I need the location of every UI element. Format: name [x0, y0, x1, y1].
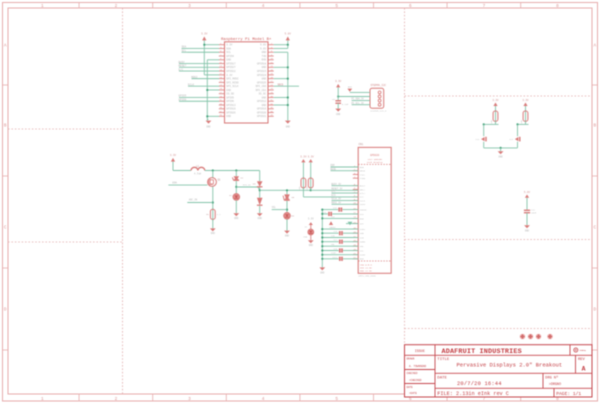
svg-text:3: 3 — [188, 397, 191, 402]
wire L1 to node VSW — [205, 170, 260, 172]
svg-text:GND: GND — [226, 115, 231, 118]
svg-text:3.3V: 3.3V — [201, 33, 208, 36]
svg-text:D7: D7 — [305, 226, 308, 229]
wire MOSI to CN1 — [332, 203, 359, 205]
svg-text:GND: GND — [499, 156, 504, 159]
power symbol 3.3V boost — [171, 158, 175, 162]
svg-text:VDHR: VDHR — [360, 241, 366, 244]
svg-text:B: B — [4, 124, 7, 129]
title block PAGE cell divider — [553, 388, 555, 397]
svg-text:SPI_CE0: SPI_CE0 — [255, 85, 266, 88]
svg-text:ID_SC: ID_SC — [259, 93, 267, 96]
CN1 pin stubs numbers and names — [353, 164, 367, 260]
svg-text:GND: GND — [525, 229, 530, 232]
svg-text:GPIO26: GPIO26 — [226, 111, 236, 114]
wire cap row 5 — [343, 232, 358, 234]
svg-text:GPIO25: GPIO25 — [257, 81, 267, 84]
svg-text:GPIO6: GPIO6 — [226, 100, 234, 103]
svg-text:DRG Nº: DRG Nº — [545, 376, 558, 381]
svg-text:SPI_CE1: SPI_CE1 — [255, 89, 266, 92]
diode D4 — [257, 198, 263, 205]
wire D5 to VGL node — [286, 201, 288, 213]
svg-text:ADC_IN: ADC_IN — [189, 199, 198, 202]
wire resistor to jumper node — [525, 121, 527, 124]
title block left column divider — [434, 345, 436, 397]
svg-text:DATE: DATE — [437, 377, 447, 381]
wire C6 to ground — [337, 103, 339, 108]
svg-text:GDR: GDR — [360, 166, 365, 169]
svg-text:TSCL: TSCL — [360, 173, 366, 176]
junction pin1 3.3V — [203, 44, 205, 46]
svg-text:GPIO27: GPIO27 — [226, 66, 236, 69]
svg-text:GND: GND — [262, 66, 267, 69]
power symbol 5.0V C12 — [525, 195, 529, 198]
svg-text:ADAFRUIT INDUSTRIES: ADAFRUIT INDUSTRIES — [442, 348, 522, 356]
svg-text:7: 7 — [483, 397, 486, 402]
svg-text:SPI_SCLK: SPI_SCLK — [226, 85, 239, 88]
wire D/C to CN1 — [332, 192, 359, 194]
svg-text:C6: C6 — [332, 98, 335, 101]
svg-text:GND: GND — [258, 217, 263, 220]
junction rail row 7 — [321, 241, 323, 243]
resistor R3 — [310, 177, 312, 190]
wire R3 to RES row — [310, 188, 312, 191]
wire jumper common — [484, 147, 518, 149]
power symbol 3.3V LED7 — [309, 222, 313, 225]
capacitor row 7 — [339, 240, 341, 244]
svg-text:R1: R1 — [206, 213, 209, 216]
junction jumper common — [500, 147, 502, 149]
svg-text:10uF: 10uF — [531, 212, 537, 215]
junction rail row 5 — [321, 232, 323, 234]
svg-text:GPIO12: GPIO12 — [257, 100, 267, 103]
svg-text:VSH2: VSH2 — [360, 228, 366, 231]
svg-text:>DATE: >DATE — [409, 391, 417, 395]
resistor R1 — [212, 208, 214, 221]
capacitor row 5 — [339, 231, 341, 235]
wire plain row 6 — [322, 237, 358, 239]
junction at RES row — [286, 189, 288, 191]
svg-text:RESET: RESET — [179, 65, 187, 68]
LED D6 — [284, 213, 291, 220]
connector JP1 STEMMA I2C box — [370, 88, 384, 108]
svg-text:5.0V: 5.0V — [260, 47, 267, 50]
junction GND rail pin25 — [206, 89, 208, 91]
svg-text:>CHECKED: >CHECKED — [409, 378, 422, 382]
wire 5V to C12 — [526, 198, 528, 210]
wire D4 to ground — [259, 206, 261, 213]
junction D1 cathode — [235, 186, 237, 188]
junction at C6 node — [337, 95, 339, 97]
svg-text:GND: GND — [309, 244, 314, 247]
wire JP1 pin1 GND — [350, 91, 370, 93]
svg-text:RES#: RES# — [360, 188, 366, 191]
wire GPIO5 — [179, 96, 219, 98]
svg-text:6: 6 — [409, 397, 412, 402]
svg-text:VSH2: VSH2 — [331, 226, 337, 229]
svg-text:GPIO13: GPIO13 — [226, 104, 236, 107]
svg-text:2.2: 2.2 — [217, 213, 222, 216]
svg-text:5: 5 — [335, 4, 338, 9]
svg-text:SRCS: SRCS — [278, 83, 284, 86]
capacitor C6 — [335, 100, 341, 102]
title block left row lines — [405, 369, 436, 371]
ground symbol below C6 — [335, 109, 341, 112]
svg-text:1: 1 — [41, 4, 44, 9]
capacitor C12 — [524, 209, 530, 211]
transistor Q1 n-mosfet — [208, 178, 217, 187]
junction rail row 6 — [321, 236, 323, 238]
LED D7 — [308, 229, 314, 235]
wire SCLK to CN1 — [332, 200, 359, 202]
svg-text:GPIO17: GPIO17 — [226, 62, 236, 65]
wire branch VGL down — [286, 190, 288, 194]
ground symbol below J1 right — [285, 121, 291, 124]
svg-text:GND: GND — [360, 217, 365, 220]
svg-text:BUSY: BUSY — [360, 185, 366, 188]
svg-text:D6: D6 — [291, 215, 294, 218]
svg-text:3.3V: 3.3V — [170, 154, 177, 157]
power arrow VPP — [329, 221, 333, 225]
svg-text:MOSI: MOSI — [191, 76, 198, 79]
svg-text:VSL: VSL — [360, 249, 365, 252]
wire plain row 8 — [322, 245, 358, 247]
svg-text:8: 8 — [556, 397, 559, 402]
svg-text:>HEHA: >HEHA — [579, 349, 586, 352]
junctions GND rail right — [287, 66, 289, 68]
svg-text:5.0V: 5.0V — [260, 44, 267, 47]
connector CN1 EPD box — [358, 147, 391, 273]
svg-text:CS#: CS# — [360, 196, 365, 199]
svg-text:D: D — [593, 308, 596, 313]
ground symbol below R1 — [210, 228, 216, 231]
svg-text:VGL: VGL — [272, 206, 277, 209]
svg-text:GND: GND — [336, 113, 341, 116]
svg-text:TITLE: TITLE — [437, 358, 450, 362]
svg-text:GPIO6: GPIO6 — [179, 98, 187, 101]
svg-text:10K: 10K — [520, 119, 523, 123]
diode D1 zener — [235, 171, 237, 177]
wire BUSY to CN1 — [332, 185, 359, 187]
svg-text:GND: GND — [262, 78, 267, 81]
svg-text:GPIO22: GPIO22 — [226, 70, 236, 73]
svg-text:5: 5 — [335, 397, 338, 402]
svg-text:CHECKED: CHECKED — [407, 372, 418, 375]
svg-text:4.7uH: 4.7uH — [194, 173, 202, 176]
svg-text:TXD: TXD — [262, 55, 267, 58]
svg-text:>DRGNO: >DRGNO — [549, 382, 561, 387]
svg-text:GPIO20: GPIO20 — [257, 111, 267, 114]
svg-text:8: 8 — [556, 4, 559, 9]
svg-text:GPIO24: GPIO24 — [257, 74, 267, 77]
svg-text:Pervasive Displays 2.0" Breako: Pervasive Displays 2.0" Breakout — [457, 362, 563, 369]
svg-text:GPIO19: GPIO19 — [226, 108, 236, 111]
IC J1 Raspberry Pi Model B+ box — [225, 42, 269, 123]
ground symbol below LED1 — [233, 213, 239, 216]
junction rail row 10 — [321, 254, 323, 256]
svg-text:FILE: 2.13in eInk rev C: FILE: 2.13in eInk rev C — [437, 391, 509, 397]
svg-text:D5: D5 — [292, 196, 295, 199]
svg-text:3.3V: 3.3V — [308, 217, 314, 220]
resistor R2 — [302, 177, 304, 190]
frame section dashed divider horizontal right middle — [405, 239, 593, 241]
solder jumper SJ1 — [481, 137, 485, 141]
wire SDA — [188, 47, 220, 49]
svg-text:A: A — [4, 44, 7, 49]
wire D/C — [179, 70, 219, 72]
svg-text:D/C: D/C — [179, 67, 184, 71]
svg-text:D3: D3 — [253, 182, 256, 185]
svg-text:A. TOWNSEND: A. TOWNSEND — [409, 365, 427, 368]
svg-text:4: 4 — [262, 397, 265, 402]
svg-text:REV: REV — [578, 358, 586, 362]
wire SRCS from pin24 — [274, 85, 299, 87]
title block outer — [405, 345, 593, 397]
svg-text:SJ1: SJ1 — [476, 138, 480, 141]
frame section dashed divider vertical right — [404, 8, 406, 345]
svg-text:GND: GND — [206, 125, 211, 128]
svg-text:RXD: RXD — [262, 59, 267, 62]
svg-text:VPP: VPP — [360, 223, 365, 226]
power symbol 3.3V (left of J1) — [202, 37, 206, 41]
svg-text:VSH: VSH — [360, 236, 365, 239]
svg-text:3: 3 — [188, 4, 191, 9]
svg-text:DATE: DATE — [407, 386, 414, 389]
svg-text:GND: GND — [226, 59, 231, 62]
wire to R2 — [302, 162, 304, 178]
svg-text:PAGE: 1/1: PAGE: 1/1 — [556, 391, 581, 397]
frame section dashed divider horizontal left lower — [8, 241, 123, 243]
wire resistor to jumper node — [495, 121, 497, 124]
power symbol 3.3V jumper 1 — [493, 103, 497, 107]
svg-text:BUSY_3V: BUSY_3V — [331, 183, 341, 186]
svg-text:3V3_SW: 3V3_SW — [243, 183, 252, 186]
junction GND rail pin39 — [206, 115, 208, 117]
mounting hole H1 — [520, 334, 526, 340]
svg-text:SCLK: SCLK — [188, 83, 195, 86]
wire SCLK — [188, 85, 219, 87]
svg-text:3.3V: 3.3V — [522, 99, 529, 102]
ground flag below D7 — [308, 240, 314, 243]
junction R3 RES — [310, 189, 312, 191]
svg-text:PWR: PWR — [304, 236, 308, 239]
svg-text:GND: GND — [262, 51, 267, 54]
svg-text:SPI_MISO: SPI_MISO — [226, 81, 239, 84]
wire JP1 pin2 3.3V — [338, 96, 370, 98]
ground symbol below J1 left — [206, 121, 212, 124]
svg-text:ECS: ECS — [331, 194, 336, 197]
svg-text:STEMMA_I2C: STEMMA_I2C — [371, 84, 387, 87]
svg-text:A: A — [593, 44, 596, 49]
frame ruler row ticks and letters — [3, 44, 598, 351]
svg-text:RESE: RESE — [360, 170, 366, 173]
ground symbol cap rail — [319, 267, 325, 270]
wire cap row 11 — [343, 258, 358, 260]
svg-text:GPIO23: GPIO23 — [257, 70, 267, 73]
svg-text:0.1uF: 0.1uF — [342, 103, 349, 106]
wire LED1 to ground — [235, 200, 237, 213]
wire 3.3V to L1 — [172, 162, 174, 171]
J1 right pin stubs and numbers — [268, 42, 274, 117]
junction rail row 2 — [321, 217, 323, 219]
wire cap row 7 — [343, 241, 358, 243]
svg-text:1: 1 — [41, 397, 44, 402]
svg-text:TSDA: TSDA — [360, 177, 366, 180]
svg-text:D/C: D/C — [331, 190, 336, 193]
wire VPP row — [346, 223, 358, 225]
LED D7 lead — [310, 225, 312, 240]
capacitor row 9 — [339, 248, 341, 252]
wire JP1 pin4 SCL — [352, 104, 370, 106]
ground symbol below D6 — [284, 231, 290, 234]
svg-text:5.0V: 5.0V — [285, 33, 292, 36]
title block logo cell divider — [569, 345, 571, 356]
wire to resistor — [525, 106, 527, 111]
wire cap row 1 — [332, 213, 358, 215]
junction rail row 0 — [321, 209, 323, 211]
svg-text:GND: GND — [286, 125, 291, 128]
svg-text:3.3V: 3.3V — [335, 80, 342, 83]
wire MOSI — [192, 78, 220, 80]
power symbol 3.3V above C6 — [336, 84, 340, 87]
wire GND rail right — [287, 52, 289, 120]
svg-text:GND: GND — [320, 271, 325, 274]
svg-text:PI_SDA_3V: PI_SDA_3V — [351, 98, 364, 101]
junction VSW at D1 — [235, 169, 237, 171]
wire R1 to ground — [212, 219, 214, 228]
svg-text:CN1: CN1 — [359, 143, 364, 146]
title block DRG cell divider — [542, 373, 544, 388]
svg-text:Q1: Q1 — [218, 179, 221, 182]
wire SCL — [188, 51, 220, 53]
svg-text:SCLK_3V: SCLK_3V — [331, 198, 341, 201]
svg-text:ISSUE: ISSUE — [415, 350, 425, 354]
junction Q1 source — [212, 201, 214, 203]
svg-text:SCL: SCL — [226, 51, 231, 54]
ground symbol below D4 — [257, 213, 263, 216]
svg-text:GND: GND — [234, 217, 239, 220]
junction rail row 8 — [321, 245, 323, 247]
junction rail row 4 — [321, 228, 323, 230]
svg-text:GPIO5: GPIO5 — [226, 96, 234, 99]
junction node — [483, 123, 485, 125]
svg-text:&1X04M_I2C_&: &1X04M_I2C_& — [371, 110, 387, 113]
wire down to jumper — [483, 124, 485, 136]
title block REV cell divider — [575, 355, 577, 373]
svg-text:GND: GND — [348, 85, 353, 88]
logo circle — [574, 348, 578, 352]
title block row line 1 — [405, 354, 593, 356]
wire RESE — [331, 170, 359, 172]
svg-text:GND: GND — [262, 104, 267, 107]
svg-text:B: B — [593, 124, 596, 129]
CN1 footer dashed divider — [358, 260, 391, 262]
wire RESET — [179, 66, 219, 68]
capacitor row 11 — [339, 257, 341, 261]
junction rail row 11 — [321, 258, 323, 260]
svg-text:DRAWN: DRAWN — [407, 358, 415, 361]
svg-text:3.3V: 3.3V — [226, 74, 233, 77]
frame section dashed divider vertical left — [122, 8, 124, 394]
svg-text:20/7/20 16:44: 20/7/20 16:44 — [457, 381, 502, 387]
wire 3.3V to junction — [337, 87, 339, 100]
capacitor row 0 — [338, 208, 340, 212]
svg-text:C: C — [593, 226, 596, 231]
wire Q1 gate ENA — [168, 184, 207, 186]
junction PREVGL — [259, 189, 261, 191]
svg-text:VCI: VCI — [331, 215, 335, 218]
wire PREVGL to EPD RES row — [260, 189, 311, 191]
svg-text:GND: GND — [285, 234, 290, 237]
svg-text:MOSI_3V: MOSI_3V — [331, 201, 341, 204]
svg-text:ENA: ENA — [172, 181, 177, 184]
svg-text:3.3V: 3.3V — [226, 44, 233, 47]
title block main row lines — [435, 372, 592, 374]
wire VSW corner down — [259, 171, 261, 182]
wire zener tap — [236, 186, 258, 188]
frame section dashed divider horizontal right lower — [405, 328, 593, 330]
wire to resistor — [495, 106, 497, 111]
mounting hole H3 — [536, 334, 542, 340]
inductor L1 — [191, 167, 205, 170]
wire GPIO6 — [179, 100, 219, 102]
svg-text:GPIO21: GPIO21 — [257, 115, 267, 118]
wire R2 to ECS row — [302, 188, 304, 197]
svg-text:SJ2: SJ2 — [509, 138, 513, 141]
resistor R4 — [495, 110, 497, 123]
svg-text:SCLK: SCLK — [360, 199, 366, 202]
svg-text:eInk display: eInk display — [367, 161, 383, 164]
svg-text:VCOM: VCOM — [331, 252, 337, 255]
wire D6 to ground — [286, 219, 288, 230]
svg-text:10K: 10K — [490, 119, 493, 123]
svg-text:2: 2 — [115, 4, 118, 9]
svg-text:3.3V: 3.3V — [308, 155, 315, 158]
svg-text:Raspberry Pi Model B+: Raspberry Pi Model B+ — [221, 37, 272, 42]
svg-text:SPI_MOSI: SPI_MOSI — [226, 78, 239, 81]
svg-text:VDDIO: VDDIO — [360, 209, 367, 212]
wire 3.3V rail left — [203, 40, 205, 74]
svg-text:5.0V: 5.0V — [524, 191, 531, 194]
svg-text:GPIO16: GPIO16 — [257, 108, 267, 111]
svg-text:C: C — [4, 226, 7, 231]
mounting hole H2 — [528, 334, 534, 340]
svg-text:SDA: SDA — [226, 47, 231, 50]
J1 left pin stubs and numbers — [219, 42, 225, 117]
wire cap rail — [321, 210, 323, 268]
power symbol 3.3V R2 — [301, 159, 305, 162]
wire to R3 — [310, 162, 312, 178]
svg-text:ID_SD: ID_SD — [226, 93, 234, 96]
power symbol 3.3V R3 — [309, 159, 313, 162]
svg-text:BUSY: BUSY — [179, 61, 186, 64]
wire BUSY — [179, 63, 219, 65]
wire ECS to CN1 — [303, 196, 358, 198]
wire Q1 source to node — [212, 187, 214, 210]
JP1 pin circles — [378, 91, 381, 94]
wire plain row 4 — [322, 228, 358, 230]
power symbol 5.0V (right of J1) — [286, 37, 290, 41]
wire D3 to node PREVGL — [259, 187, 261, 197]
power symbol 3.3V jumper 2 — [523, 103, 527, 107]
wire down to jumper — [517, 124, 519, 136]
diode D5 zener — [284, 194, 290, 200]
wire Q1 drain — [212, 171, 214, 178]
svg-text:C111: C111 — [332, 256, 338, 259]
junction rail row 1 — [321, 213, 323, 215]
wire ADC sense — [187, 202, 213, 204]
wire cap row 9 — [343, 250, 358, 252]
